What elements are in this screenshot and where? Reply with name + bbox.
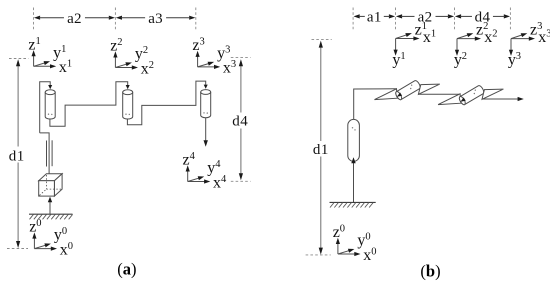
- prismatic rod hidden inside cube (a): [48, 178, 50, 192]
- coordinate frame 3 (a): [192, 36, 236, 76]
- link joint1 to joint2 (b): [418, 93, 460, 95]
- coordinate frame 2 (a): [110, 37, 154, 77]
- dimension d1 (b): [312, 39, 332, 41]
- axis tick line joint2 (b): [454, 8, 456, 31]
- base joint axis arrow (a): [49, 201, 51, 214]
- vertical post link (b): [354, 89, 397, 120]
- svg-text:(a): (a): [117, 260, 136, 279]
- svg-text:a2: a2: [67, 11, 82, 27]
- dimension a1 (b): [354, 14, 360, 18]
- svg-text:d4: d4: [232, 114, 248, 130]
- coordinate frame 1 (b): [392, 21, 436, 69]
- end effector axis arrow (a): [205, 118, 207, 143]
- coordinate frame 0 (b): [333, 224, 377, 264]
- coordinate frame 1 (a): [28, 36, 72, 76]
- svg-text:a3: a3: [148, 11, 163, 27]
- dimension a3 (a): [116, 16, 122, 20]
- ground hatching (a): [29, 214, 73, 219]
- revolute joint J1 assembly (b): [375, 80, 440, 101]
- link bracket joint1 (a): [40, 82, 51, 133]
- coordinate frame 2 (b): [454, 21, 498, 69]
- axis tick line joint1 (a): [33, 8, 35, 31]
- axis tick line joint2 (a): [114, 8, 116, 31]
- svg-text:a1: a1: [367, 10, 382, 26]
- coordinate frame 3 (b): [508, 21, 550, 69]
- revolute joint J2 assembly (b): [438, 85, 503, 106]
- axis tick line joint3 (a): [195, 8, 197, 31]
- coordinate frame 0 (a): [29, 218, 73, 258]
- link joint2 to joint3 (a): [127, 81, 205, 125]
- revolute joint J2 cylinder (a): [123, 90, 133, 119]
- svg-text:d1: d1: [313, 142, 329, 158]
- svg-text:(b): (b): [420, 262, 440, 281]
- axis tick line joint3 (b): [509, 8, 511, 31]
- axis tick line joint1 (b): [395, 8, 397, 31]
- dimension d1 (a): [9, 58, 29, 60]
- link joint1 to joint2 (a): [50, 82, 128, 127]
- revolute joint J3 cylinder (a): [201, 90, 211, 118]
- coordinate frame 4 (a): [183, 151, 228, 191]
- cube slider block (a): [39, 174, 62, 196]
- base joint axis arrow (b): [353, 161, 355, 202]
- dimension d4 (a): [231, 56, 251, 58]
- revolute joint J1 cylinder (a): [45, 90, 55, 119]
- dimension d4 (b): [455, 14, 461, 18]
- axis tick line base (b): [352, 8, 354, 31]
- prismatic joint capsule (b): [348, 119, 360, 161]
- dimension a2 (a): [34, 16, 40, 20]
- svg-text:d1: d1: [9, 148, 25, 164]
- ground hatching (b): [330, 202, 376, 207]
- end effector arrow (b): [482, 98, 520, 100]
- dimension a2 (b): [396, 14, 402, 18]
- prismatic joint rod and sleeve (a): [40, 133, 49, 178]
